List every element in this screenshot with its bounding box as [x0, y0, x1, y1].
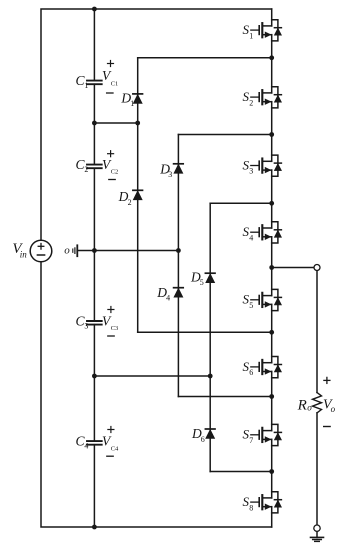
svg-text:4: 4: [166, 294, 170, 303]
svg-text:1: 1: [130, 99, 134, 108]
svg-text:8: 8: [249, 503, 253, 512]
svg-text:1: 1: [249, 31, 253, 40]
svg-text:2: 2: [128, 198, 132, 207]
svg-text:3: 3: [249, 167, 253, 176]
svg-text:5: 5: [249, 301, 253, 310]
svg-text:5: 5: [200, 278, 204, 287]
svg-text:1: 1: [84, 81, 88, 90]
svg-text:o: o: [307, 403, 312, 413]
svg-text:C4: C4: [111, 445, 119, 452]
svg-text:4: 4: [249, 233, 253, 242]
svg-text:o: o: [64, 244, 70, 256]
svg-text:6: 6: [249, 368, 253, 377]
svg-text:7: 7: [249, 436, 253, 445]
svg-text:3: 3: [84, 321, 88, 330]
svg-text:C3: C3: [111, 325, 119, 332]
svg-text:2: 2: [249, 98, 253, 107]
svg-text:in: in: [20, 249, 28, 259]
svg-text:C2: C2: [111, 169, 119, 176]
svg-text:C1: C1: [111, 81, 119, 88]
svg-text:4: 4: [84, 441, 88, 450]
svg-text:o: o: [331, 404, 336, 414]
svg-text:6: 6: [201, 435, 205, 444]
svg-text:2: 2: [84, 165, 88, 174]
svg-text:3: 3: [168, 170, 172, 179]
svg-text:R: R: [297, 397, 307, 413]
